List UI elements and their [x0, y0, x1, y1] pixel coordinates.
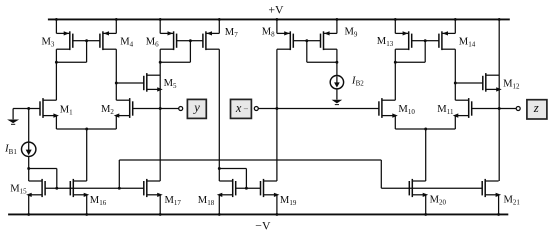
svg-text:−V: −V	[255, 218, 271, 232]
svg-text:+V: +V	[268, 3, 284, 17]
svg-text:y: y	[192, 101, 200, 115]
svg-text:z: z	[533, 101, 539, 115]
svg-text:x: x	[235, 101, 242, 115]
